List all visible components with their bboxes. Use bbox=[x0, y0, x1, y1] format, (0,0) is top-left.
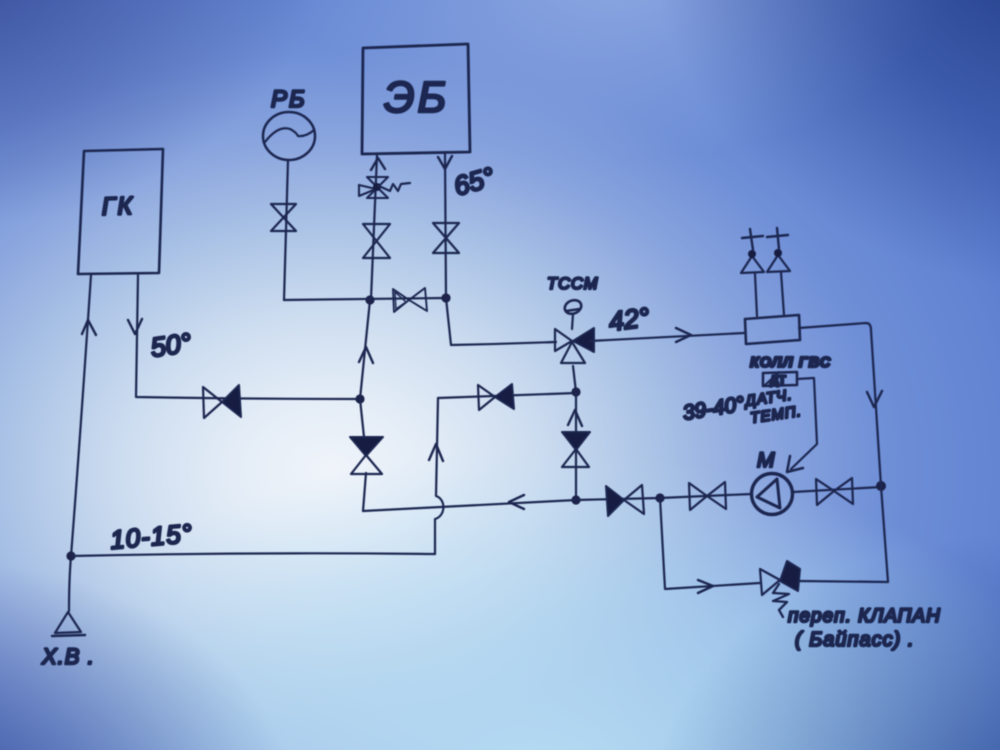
arrowhead DT link bbox=[787, 456, 803, 472]
valve V1 on 50 line bbox=[203, 385, 241, 418]
valve V10 on pump line bbox=[816, 478, 853, 505]
wire 42 degree line to collector bbox=[590, 333, 744, 341]
pump M circle bbox=[752, 474, 793, 515]
valve V9 on pump line bbox=[689, 482, 726, 510]
valve V5 on EB right pipe (hourglass) bbox=[433, 223, 459, 253]
svg-text:65°: 65° bbox=[450, 162, 498, 202]
tap 1 bbox=[741, 229, 764, 273]
valve V12 on return line (left filled) bbox=[606, 485, 644, 516]
arrow right on bypass bbox=[698, 580, 713, 593]
node junction at 660,498 bbox=[655, 493, 664, 502]
node junction at 576,500 bbox=[571, 495, 580, 504]
tap 2 bbox=[767, 228, 790, 272]
wire RB stem bbox=[284, 160, 288, 300]
wire vertical 360,399 to 370,300 bbox=[360, 300, 370, 399]
wire 10-15 degree line bbox=[71, 553, 435, 556]
node junction at 881,486 bbox=[876, 481, 886, 491]
safety valve SV with spring bbox=[359, 177, 410, 198]
arrow up on X.B. riser bbox=[82, 320, 96, 335]
node junction X.B. / 10-15 line bbox=[66, 551, 75, 560]
svg-text:М: М bbox=[757, 449, 775, 472]
svg-text:ЭБ: ЭБ bbox=[384, 73, 449, 122]
node junction at 576,392 bbox=[571, 387, 580, 396]
arrow up on TCCM stem bbox=[568, 410, 582, 426]
tap 1 stem bbox=[755, 274, 757, 316]
arrow down on right drop bbox=[867, 391, 882, 407]
wire EB right pipe bbox=[445, 154, 446, 298]
svg-text:50°: 50° bbox=[149, 328, 194, 363]
svg-text:переп. КЛАПАН: переп. КЛАПАН bbox=[788, 606, 941, 627]
bypass valve V11 with spring bbox=[760, 561, 800, 617]
svg-text:Х.В .: Х.В . bbox=[41, 644, 95, 669]
valve V6 on TCCM stem (half filled) bbox=[562, 432, 590, 467]
wire TCCM bottom stem bbox=[573, 366, 576, 392]
arrow up on that vertical bbox=[359, 347, 373, 363]
wire TCCM stem junction to return bbox=[575, 392, 577, 500]
svg-text:( Байпасс) .: ( Байпасс) . bbox=[795, 629, 914, 651]
arrow down on EB right pipe bbox=[438, 156, 452, 169]
wire collector to right down to pump line bbox=[799, 323, 881, 486]
svg-text:КОЛЛ ГВС: КОЛЛ ГВС bbox=[750, 355, 831, 371]
wire DT to pump arrow bbox=[791, 378, 817, 469]
wire GK hot out 50 line bbox=[136, 275, 360, 399]
hot water collector box bbox=[745, 315, 800, 344]
wire funnel stem from 360,399 down bbox=[360, 399, 366, 511]
arrow left on return line bbox=[509, 495, 524, 509]
wire RB horizontal to junction bbox=[284, 298, 446, 300]
cold water source triangle X.B. bbox=[55, 612, 81, 633]
valve V2 on RB horizontal bbox=[393, 288, 427, 312]
wire junction down and right to TCCM valve bbox=[446, 298, 556, 345]
tap 2 stem bbox=[781, 272, 784, 315]
boiler box GK bbox=[78, 149, 163, 274]
wire cold feed riser with hop over return line bbox=[435, 398, 443, 554]
arrow right on 42 line bbox=[676, 328, 691, 342]
arrow up on EB left pipe bbox=[371, 158, 385, 170]
expansion tank RB circle bbox=[263, 112, 315, 160]
wire return line bbox=[363, 498, 660, 511]
svg-text:39-40°: 39-40° bbox=[681, 393, 746, 425]
svg-text:РБ: РБ bbox=[271, 86, 307, 113]
wire bypass branch bbox=[660, 486, 888, 589]
three-way valve TCCM bbox=[555, 298, 594, 363]
svg-text:ДТ: ДТ bbox=[770, 373, 787, 387]
wire EB left pipe bbox=[371, 155, 377, 299]
svg-text:42°: 42° bbox=[607, 302, 651, 337]
node junction at 360,399 bbox=[355, 394, 364, 403]
svg-text:ТССМ: ТССМ bbox=[547, 275, 598, 293]
valve V7 on TCCM feed bbox=[478, 384, 514, 410]
valve V8 (half filled) bbox=[350, 437, 383, 474]
temperature sensor DT box bbox=[763, 372, 797, 387]
wire TCCM feed horizontal bbox=[438, 393, 576, 398]
svg-text:ГК: ГК bbox=[101, 192, 134, 221]
wire pump line bbox=[660, 487, 881, 498]
RB wave bbox=[265, 128, 314, 142]
arrow down on GK out bbox=[128, 319, 142, 334]
arrow up on cold feed riser bbox=[429, 444, 443, 461]
node junction at 446,298 bbox=[441, 293, 450, 302]
valve V3 on RB stem (hourglass) bbox=[271, 204, 296, 231]
node junction at 370,300 bbox=[365, 295, 374, 304]
wire X.B. riser (cold water up into GK) bbox=[69, 275, 91, 611]
electric boiler box EB bbox=[362, 44, 470, 154]
svg-text:10-15°: 10-15° bbox=[109, 518, 194, 555]
valve V4 on EB left pipe (hourglass) bbox=[363, 224, 390, 258]
pump triangle bbox=[757, 479, 780, 508]
